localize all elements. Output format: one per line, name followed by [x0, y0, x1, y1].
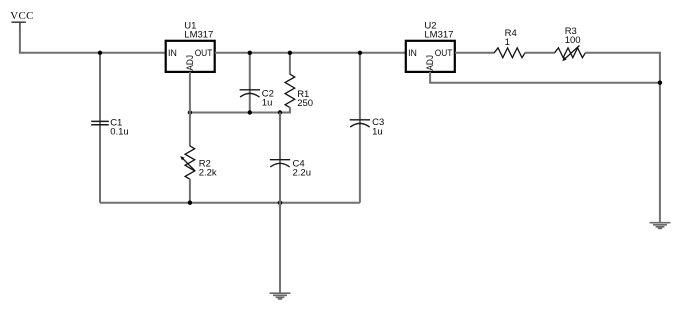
svg-text:VCC: VCC [10, 10, 33, 22]
wire R1 top stub [289, 53, 291, 75]
capacitor C3 [350, 120, 370, 127]
wire C3 branch [359, 53, 361, 203]
svg-text:ADJ: ADJ [425, 55, 436, 71]
wire U1 OUT rail to U2 IN [215, 52, 406, 54]
resistor R1 [285, 74, 295, 107]
wire top rail to U1 IN [19, 52, 166, 54]
svg-text:LM317: LM317 [424, 30, 453, 41]
svg-text:LM317: LM317 [184, 30, 213, 41]
svg-text:100: 100 [565, 35, 581, 46]
svg-text:0.1u: 0.1u [110, 127, 129, 138]
wire C1 branch [99, 53, 101, 203]
svg-text:OUT: OUT [195, 48, 213, 59]
junction node ADJ/R2 [188, 110, 192, 114]
wire ADJ rail (U1 ADJ / C2 / C4 / R1) [190, 112, 291, 114]
svg-text:250: 250 [297, 98, 313, 109]
svg-text:1: 1 [505, 37, 510, 48]
resistor R4 [494, 48, 525, 58]
wire C4 branch down to ground [279, 113, 281, 293]
wire C2 branch [249, 53, 251, 113]
wire VCC drop [19, 31, 21, 53]
svg-text:2.2u: 2.2u [293, 167, 312, 178]
IC U2 LM317 body [406, 41, 455, 72]
wire U2 OUT to R4 [455, 52, 495, 54]
junction node OUT/C2 [248, 51, 252, 55]
resistor R2 (trimmer) [180, 146, 195, 179]
wire U1 ADJ pin down to R2 [189, 72, 191, 146]
junction node OUT/R1 [288, 51, 292, 55]
wire R4 to R3 [525, 52, 555, 54]
capacitor C1 [91, 121, 109, 124]
wire R2 bottom stub [189, 179, 191, 203]
power symbol VCC [11, 22, 25, 33]
wire R3 to right corner [585, 52, 661, 54]
ground symbol (right) [650, 223, 671, 229]
wire right vertical down to ground [659, 53, 661, 223]
ground symbol (left) [270, 293, 291, 299]
junction node ADJ/C4 top [278, 110, 282, 114]
svg-text:ADJ: ADJ [185, 55, 196, 71]
junction node VCC/C1 [98, 51, 102, 55]
svg-text:IN: IN [408, 48, 417, 59]
wire bottom rail [100, 202, 360, 204]
wire U2 ADJ pin [430, 72, 661, 83]
svg-text:IN: IN [168, 48, 177, 59]
svg-text:1u: 1u [372, 127, 383, 138]
junction node ADJ/C2 bottom [248, 110, 252, 114]
svg-text:OUT: OUT [435, 48, 453, 59]
resistor R3 (trimmer) [555, 46, 586, 62]
junction node bottom/R2 [188, 201, 192, 205]
svg-text:2.2k: 2.2k [199, 167, 217, 178]
capacitor C4 [270, 160, 290, 167]
junction node bottom/C4-gnd [278, 201, 282, 205]
svg-text:1u: 1u [262, 98, 273, 109]
junction node OUT/C3 [358, 51, 362, 55]
capacitor C2 [240, 90, 260, 97]
IC U1 LM317 body [166, 41, 215, 72]
wire R1 bottom stub [289, 107, 291, 112]
junction node ADJ2/right rail [658, 81, 662, 85]
